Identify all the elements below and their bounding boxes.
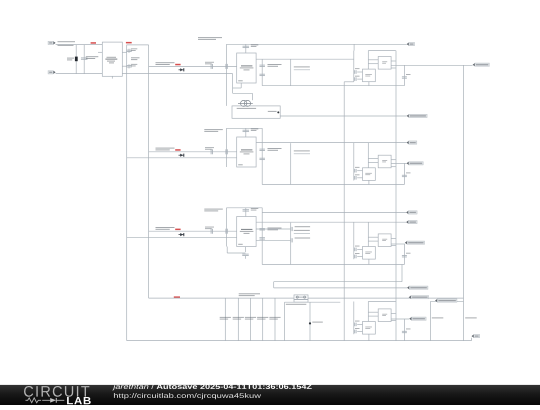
label stage2 rail net [204,129,223,132]
label VIN+ net name row2 [58,45,74,46]
label U3a [365,252,372,254]
label U1b [382,61,387,63]
gate driver U1 body [237,53,256,83]
wire bottom net B to flag [274,287,407,289]
capacitor C4 on 5V bus [126,66,132,67]
net flag module2 top [407,141,417,144]
wire cap bank C b5 [274,298,276,341]
net label stage1 iso [294,69,310,71]
label C2 value [86,56,99,59]
net flag bottom right [472,334,480,337]
wire U3b right pin2 [391,244,396,246]
wire stage2 return into driver [127,157,237,159]
wire module1 boxA bottom drop [368,82,370,86]
label C2a [205,147,214,150]
wire module1 top edge [368,50,396,52]
label C4m1 [355,320,360,323]
label C1o [406,73,411,76]
label C1c C1d values [268,64,282,67]
capacitor C2c [259,149,265,150]
capacitor C4m2 module left [355,330,356,334]
wire U4b left pin1 [368,311,378,313]
capacitor C1m2 module left [355,77,356,81]
capacitor C4o module output [402,331,407,332]
capacitor C3d [259,238,265,239]
label U2b [382,160,387,162]
input terminal flag VIN- [48,71,56,74]
wire module4 out [391,318,409,320]
capacitor C4m1 module left [355,323,356,327]
label Cb4 [257,317,268,320]
wire module1 output cap branch [403,65,405,85]
wire stage1 jog vertical [232,74,234,94]
wire module4 capB link [357,331,362,333]
wire stage2 left loop vertical [226,128,228,167]
wire stage3 out cap branch [261,208,263,265]
label U1 row2 [240,67,254,68]
label C4m2 [355,327,360,330]
wire stage1 driver out top [256,58,354,60]
capacitor C3m2 module left [355,255,356,259]
label C3c C3d values [268,228,282,231]
wire stage1 mid vertical [290,59,292,85]
wire module2 capA link [357,170,362,172]
net flag module3 a [406,211,417,214]
wire cap bank C b1 [224,298,226,341]
label C2c C2d values [268,148,282,151]
wire stage3 top rail [227,207,263,209]
capacitor C2b series mark [226,149,227,154]
net flag bottom B [407,286,428,289]
wire module1 left edge [353,51,355,82]
label stage3 rail net [204,209,223,212]
label X1 value [237,108,256,109]
label U4b [382,314,387,316]
wire C3g bottom stub [245,256,247,259]
wire U3b left pin1 [368,236,378,238]
label U1 gnd pin [238,80,243,81]
wire stage1 jog [233,87,242,89]
wire stage3 mid vertical [290,223,292,265]
net flag +5V bus [409,296,429,299]
junction bottom sense [309,322,311,324]
label U2 row2 [240,151,254,152]
capacitor C3e series [291,227,292,231]
red label 5V 5A input [91,42,96,44]
net flag stage1 sense [407,114,428,117]
wire U3b left pin2 [368,240,378,242]
wire module2 boxA bottom drop [368,180,370,184]
label U3 part number [241,229,252,230]
isolator U2b body [378,155,391,168]
capacitor C3t above driver [245,208,247,217]
net flag module3 b [406,220,417,223]
regulator U1a body [363,69,376,82]
label PS1 row3 [107,61,115,62]
capacitor C2m1 module left [355,169,356,173]
label C1m2 [355,75,360,78]
wire vertical bus far right [463,65,465,341]
label Cb2 [233,317,244,320]
footer text line 1 [112,384,311,390]
wire bottom net A drop [273,282,275,288]
label U3 gnd pin [238,244,243,245]
label stage3 input net [156,227,175,230]
label U3 row2 [240,231,254,232]
capacitor C3m1 module left [355,248,356,252]
capacitor C3o module output [402,256,407,257]
wire module2 inner link [367,143,369,168]
label U1 part number [241,65,252,66]
oscillator X1 [238,100,253,106]
wire stage2 mid vertical [290,143,292,184]
diode D1 polarized mark [179,68,185,71]
wire module3 inner link [367,222,369,246]
label U2 gnd pin [238,164,243,165]
label stage1 input net [156,62,175,65]
wire stage1 left loop vertical [226,44,228,106]
wire module2 left edge [353,143,355,181]
wire stage3 below-block loop v [226,247,228,254]
capacitor C1m1 module left [355,70,356,74]
capacitor C2 [81,58,88,59]
junction stage1 sense [277,111,279,113]
capacitor C3g below stage3 driver [242,254,249,255]
capacitor C2t above driver [245,128,247,137]
wire +5V vertical bus right [148,45,150,298]
label Cb5 [269,317,280,320]
gate driver U3 body [237,217,256,247]
wire stage1 sense loop rectangle [232,106,280,118]
label U1a [365,74,372,76]
wire module1 capA link [357,71,362,73]
wire module3 left edge [353,222,355,259]
CircuitLab logo text CIRCUIT [24,386,89,397]
regulator U3a body [363,247,376,260]
wire U1b right pin2 [391,67,396,69]
wire module2 out [391,162,406,164]
wire U3b right pin1 [391,237,396,239]
label C1 value [67,58,74,61]
label C3a [205,227,214,229]
label C1a [205,62,214,65]
label stage2 input net [156,148,175,151]
label U3 row3 [244,233,250,234]
red label stage3 current [175,229,180,231]
wire input cap branch C1 [75,45,77,74]
capacitor C1a series mark [211,64,212,69]
red label +5V 1A bus [174,296,180,298]
wire vertical bus module right [395,51,397,341]
wire U1b right pin1 [391,60,396,62]
wire stage3 driver out / module3 top [256,221,406,223]
capacitor C3c [259,229,265,230]
wire stage3 left loop vertical [226,208,228,247]
wire bottom ground bus [127,340,472,342]
wire stage2 top rail [227,127,263,129]
wire stage3 below-block loop h [227,252,245,254]
wire stage3 aux out B [256,239,290,241]
wire C3 stub [128,49,130,53]
net flag right aux [435,299,457,302]
label VIN+ net name [58,41,76,42]
label Cb1 [220,317,231,320]
net label stage2 iso [294,153,310,155]
label C4 [131,64,138,67]
logo resistor-diode squiggle [26,398,65,403]
label bottom supply text [239,293,260,296]
capacitor C1d [259,74,265,75]
wire bottom rect left [284,302,286,340]
capacitor C3a series mark [211,229,212,234]
wire +5V distribution bus [149,297,464,299]
wire stage1 bottom rail [262,85,404,87]
label U2 part number [241,149,252,150]
wire input cap branch C2 [83,45,85,74]
wire U2b left pin2 [368,161,378,163]
wire stage2 bottom rail [262,184,404,186]
wire U4b right pin2 [391,319,396,321]
CircuitLab logo text LAB [67,397,91,404]
wire PS1 out pin1 [122,51,126,53]
wire stage3 return into driver [127,236,237,238]
capacitor C2a series mark [211,149,212,154]
wire module1 inner link [367,51,369,70]
isolator U3b body [378,234,391,247]
diode D2 polarized mark [179,154,185,157]
wire stage2 signal into driver [149,151,237,153]
wire stage1 rail drop to module [353,44,355,50]
wire C4 stub [128,64,130,68]
isolator U4b body [378,309,391,322]
wire VIN- rail right of PS1 [122,73,232,75]
wire module2 capB link [357,177,362,179]
label U3b [382,239,387,241]
wire stage3 bottom rail [262,264,404,266]
label C4o [406,328,411,331]
diode D3 polarized mark [179,233,185,236]
label C2m1 [355,166,360,169]
red label stage1 current [175,64,180,66]
capacitor C1o module output [402,77,407,78]
label U1 row3 [244,69,250,70]
wire module3 boxA bottom drop [368,259,370,264]
capacitor C1c [259,65,265,66]
wire module1 capB link [357,78,362,80]
wire VIN- bottom rail [56,73,103,75]
wire +5V vertical bus left [126,45,128,341]
wire bottom-right flag stub [471,338,473,341]
wire module3 output cap branch [403,244,405,265]
label C3t [251,208,258,211]
wire U1b left pin1 [368,59,378,61]
wire module3 top net a [262,212,406,214]
wire module4 boxA bottom drop [368,334,370,341]
wire oscillator drop [251,93,253,100]
isolator U1b body [378,57,391,70]
net flag module2 out [407,162,424,165]
label stage1 rail net [198,37,222,40]
wire bus interconnect top [127,44,149,46]
wire stage1 to oscillator [233,92,253,94]
wire PS1 bottom pin stub [111,76,113,78]
label C2o [406,171,411,174]
capacitor C3f series [291,238,292,242]
wire stage1 top rail to flag [227,43,407,45]
wire stage1 bottom pin drop [240,83,242,88]
label PS1 row4 [109,62,114,63]
label C3m2 [355,252,360,255]
capacitor C3b series mark [226,229,227,234]
label U2a [365,173,372,175]
label bus net [131,57,140,60]
wire right aux horizontal [431,300,464,302]
wire vertical bus mid [343,82,345,341]
wire module4 inner link [367,302,369,322]
label C aux2 [465,317,477,318]
wire module4 top edge [368,301,396,303]
regulator U2a body [363,168,376,181]
capacitor C2d [259,158,265,159]
label C1m1 [355,67,360,70]
label C1t [251,45,258,48]
jumper J1 below fuse [294,300,308,303]
wire bus mid top corner [344,81,354,83]
wire cap bank C b4 [262,298,264,341]
label U4a [365,327,372,329]
label C3m1 [355,245,360,248]
label stage3 aux A [295,226,311,227]
net flag module4 out [409,317,426,320]
wire stage2 out cap branch [261,128,263,184]
wire module3 capB link [357,256,362,258]
label PS1 part number [105,59,117,60]
wire stage3 aux drop [401,265,403,282]
gate driver U2 body [237,137,256,167]
capacitor C3 on 5V bus [126,50,132,51]
capacitor C1b series mark [226,64,227,69]
wire stage3 signal into driver [149,230,237,232]
label C aux1 [432,317,444,318]
label C3 [131,48,138,51]
label stage1 sense net [268,111,277,112]
wire U2b right pin1 [391,159,396,161]
capacitor C1t above driver [245,44,247,53]
wire PS1 left pin stub [98,51,102,53]
wire stage2 driver out / module2 top [256,142,406,144]
label PS1 row1 [107,57,117,58]
label Cb3 [245,317,256,320]
wire module2 output cap branch [403,163,405,184]
wire U1b left pin2 [368,63,378,65]
footer bar [0,385,540,405]
capacitor C2m2 module left [355,176,356,180]
wire module1 out to bus and flag [391,64,473,66]
wire stage1 sense out to flag [280,115,406,117]
net label stage3 iso [294,232,310,234]
label F1 value [286,304,307,305]
wire bottom net A [274,281,402,283]
label C2m2 [355,173,360,176]
wire U2b right pin2 [391,166,396,168]
wire module4 left edge [353,302,355,335]
fuse F1 on 5V bus [294,295,308,299]
label C2t [251,129,258,132]
wire bottom rect right [309,302,311,340]
wire U4b left pin2 [368,315,378,317]
label stage3 aux B [295,238,311,239]
wire module4 output cap branch [403,319,405,341]
wire stage1 out cap branch [261,59,263,85]
net flag module3 out [405,241,425,244]
wire U2b left pin1 [368,158,378,160]
wire module3 out [391,243,405,245]
wire stage3 aux out A [256,228,290,230]
wire bottom rect top [285,301,341,303]
label C3o [406,252,411,255]
wire right aux vertical [430,301,432,340]
wire module4 capA link [357,323,362,325]
capacitor C2o module output [402,175,407,176]
power module PS1 body [102,42,122,76]
wire stage1 signal into driver [149,65,237,67]
net flag stage1 top [407,42,415,45]
wire module3 capA link [357,248,362,250]
red label 5V rail [126,42,132,44]
capacitor C1 electrolytic body [75,57,78,62]
wire stage3 block bottom stub [245,247,247,252]
wire PS1 out pin2 [122,65,126,67]
footer text line 2 [114,393,261,399]
wire cap bank C b3 [250,298,252,341]
regulator U4a body [363,322,376,335]
wire cap bank C b2 [237,298,239,341]
wire U4b right pin1 [391,312,396,314]
label bottom sense [312,322,323,323]
wire VIN+ top rail [56,44,103,46]
label U2 row3 [244,153,250,154]
red label stage2 current [175,149,180,151]
net flag module1 out [473,63,490,66]
input terminal flag VIN+ [48,41,56,44]
